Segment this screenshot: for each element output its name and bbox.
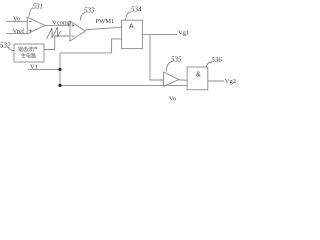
svg-text:535: 535 — [171, 55, 182, 63]
svg-text:A: A — [129, 23, 134, 30]
svg-text:Vg1: Vg1 — [178, 30, 189, 37]
svg-text:V1: V1 — [30, 63, 38, 70]
svg-text:536: 536 — [212, 56, 223, 64]
svg-text:生电路: 生电路 — [21, 53, 36, 60]
svg-text:Vg2: Vg2 — [225, 78, 236, 85]
svg-text:532: 532 — [0, 42, 11, 50]
svg-text:531: 531 — [33, 2, 44, 10]
svg-text:Vcomp: Vcomp — [52, 20, 71, 27]
svg-text:Vo: Vo — [13, 16, 20, 23]
svg-text:PWM1: PWM1 — [96, 18, 115, 25]
svg-text:Vo: Vo — [169, 95, 176, 102]
svg-text:&: & — [196, 71, 201, 78]
svg-text:锯齿波产: 锯齿波产 — [18, 46, 38, 53]
svg-text:Vref: Vref — [13, 28, 25, 35]
svg-text:533: 533 — [84, 6, 95, 14]
svg-text:534: 534 — [131, 6, 142, 14]
